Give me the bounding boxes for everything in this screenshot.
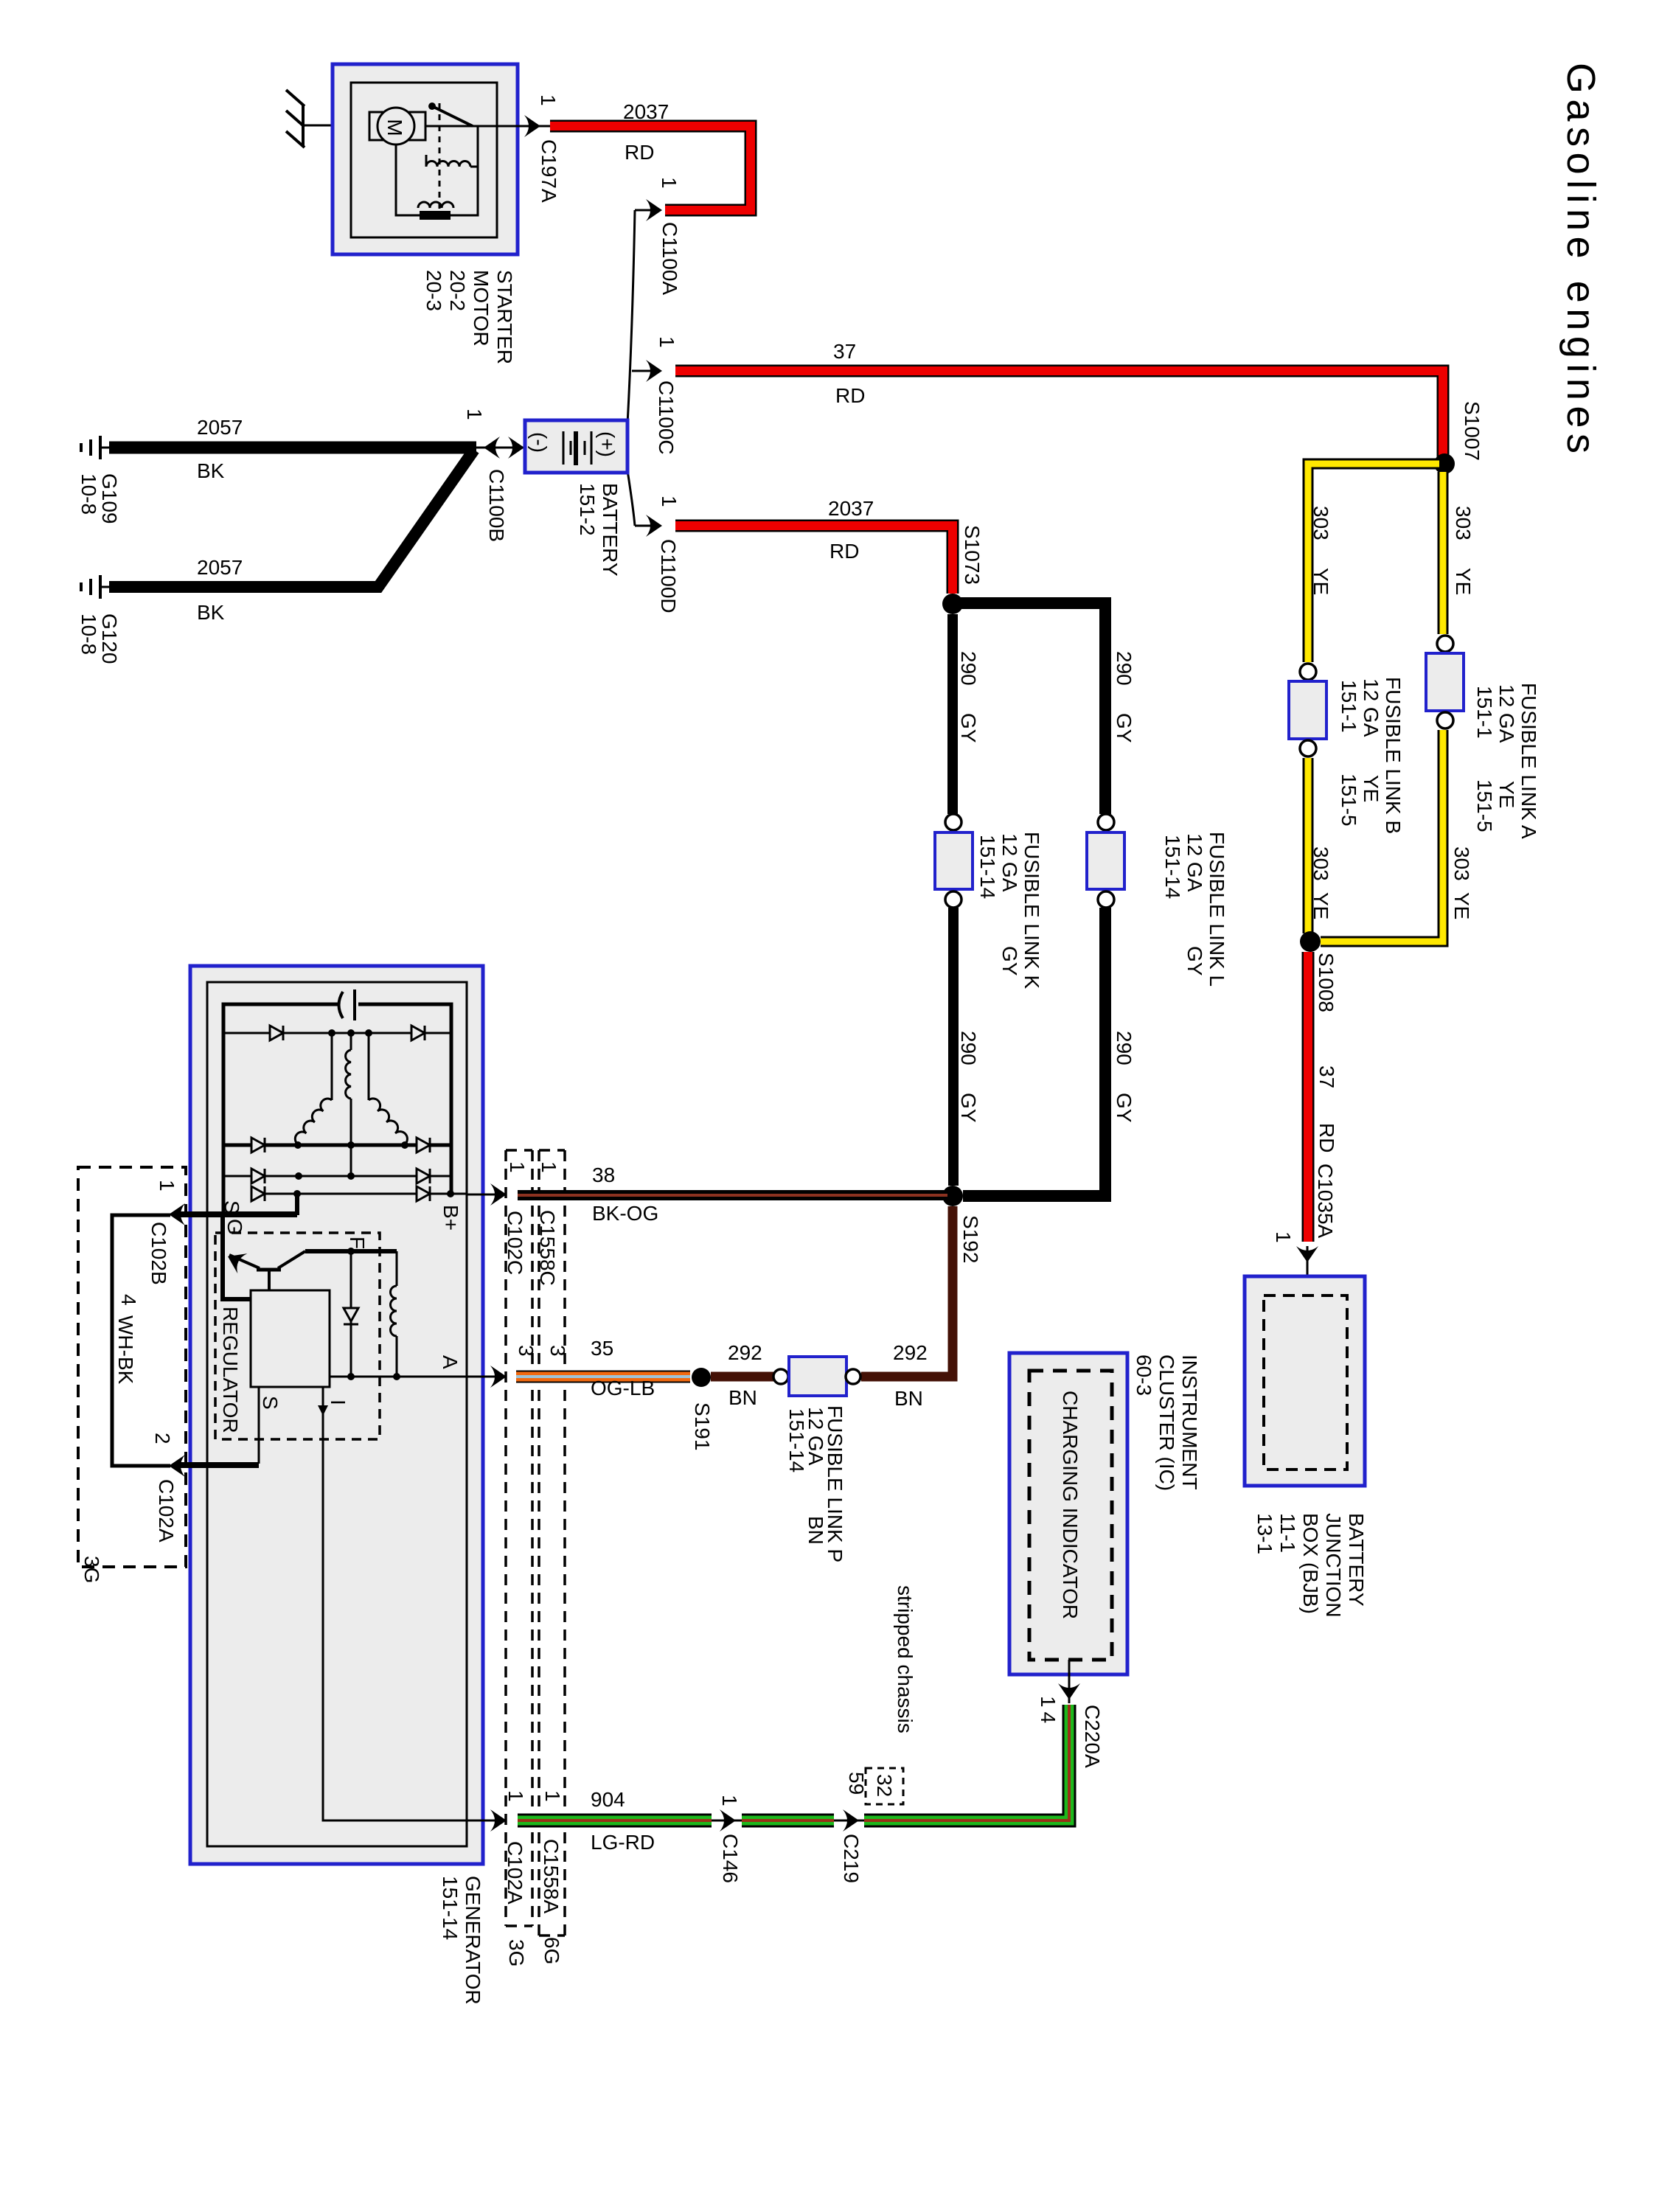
node S1073 bbox=[942, 525, 984, 614]
svg-text:59: 59 bbox=[845, 1772, 868, 1795]
starter motor box bbox=[333, 64, 518, 254]
S G pin wire bbox=[169, 1194, 297, 1235]
svg-text:1: 1 bbox=[463, 408, 486, 420]
instrument cluster label bbox=[1133, 1354, 1201, 1491]
wire battery to C1100D bbox=[627, 470, 635, 526]
svg-text:303: 303 bbox=[1450, 846, 1473, 881]
svg-text:(-): (-) bbox=[528, 432, 551, 453]
svg-text:S1073: S1073 bbox=[961, 525, 984, 585]
connector A arrow bbox=[330, 1366, 507, 1388]
svg-text:4: 4 bbox=[117, 1294, 140, 1306]
stripped chassis label bbox=[894, 1585, 917, 1733]
yellow wire left lower bbox=[1303, 758, 1314, 933]
svg-text:1: 1 bbox=[658, 495, 681, 507]
diode row 3 bbox=[223, 1169, 451, 1183]
connector C197A arrow bbox=[518, 94, 560, 203]
svg-text:S1008: S1008 bbox=[1315, 953, 1338, 1012]
svg-text:292: 292 bbox=[728, 1341, 762, 1364]
svg-text:YE: YE bbox=[1310, 892, 1332, 919]
svg-text:151-14: 151-14 bbox=[976, 835, 999, 899]
battery label bbox=[576, 483, 622, 577]
svg-text:BN: BN bbox=[804, 1516, 827, 1545]
svg-text:RD: RD bbox=[625, 141, 654, 164]
wire 2057 BK upper bbox=[109, 416, 476, 482]
BJB label bbox=[1253, 1513, 1368, 1618]
node S191 bbox=[691, 1368, 714, 1450]
svg-text:2057: 2057 bbox=[197, 416, 243, 439]
svg-text:GY: GY bbox=[1183, 946, 1206, 976]
svg-text:1: 1 bbox=[504, 1790, 527, 1802]
svg-text:2037: 2037 bbox=[828, 497, 874, 520]
wire 2057 BK lower with diagonal bbox=[109, 450, 474, 624]
fusible link B label bbox=[1338, 677, 1405, 834]
fusible link L bbox=[1087, 814, 1124, 908]
fusible link A label bbox=[1473, 683, 1540, 839]
svg-text:C1100A: C1100A bbox=[658, 222, 681, 295]
svg-text:290: 290 bbox=[957, 651, 980, 686]
diode row 1 bbox=[223, 1026, 451, 1040]
diode row 2 bbox=[223, 1138, 451, 1152]
wire 37 RD to BJB bbox=[1308, 952, 1338, 1242]
svg-text:OG-LB: OG-LB bbox=[591, 1377, 655, 1399]
jumper wire 4 WH-BK bbox=[112, 1215, 170, 1466]
stator windings bbox=[295, 1033, 407, 1176]
svg-text:RD: RD bbox=[829, 540, 859, 563]
starter solenoid plunger bbox=[439, 103, 441, 214]
svg-text:20-2: 20-2 bbox=[446, 270, 469, 311]
wire 292 BN from S192 bbox=[861, 1206, 953, 1377]
svg-text:1: 1 bbox=[1272, 1231, 1295, 1243]
ground at starter motor bbox=[286, 90, 305, 147]
svg-text:151-14: 151-14 bbox=[785, 1408, 808, 1472]
svg-text:10-8: 10-8 bbox=[77, 613, 100, 655]
starter solenoid winding 1 bbox=[426, 161, 470, 167]
node 32 dashed box bbox=[866, 1768, 903, 1804]
svg-text:C219: C219 bbox=[840, 1834, 863, 1883]
svg-text:GY: GY bbox=[957, 1093, 980, 1123]
svg-text:Gasoline engines: Gasoline engines bbox=[1559, 63, 1603, 453]
wire 35 OG-LB bbox=[516, 1337, 690, 1399]
svg-text:FUSIBLE LINK B: FUSIBLE LINK B bbox=[1382, 677, 1405, 834]
svg-text:32: 32 bbox=[873, 1774, 896, 1797]
svg-text:REGULATOR: REGULATOR bbox=[219, 1307, 242, 1433]
svg-text:YE: YE bbox=[1452, 568, 1475, 595]
svg-text:stripped chassis: stripped chassis bbox=[894, 1585, 917, 1733]
svg-text:C1558C: C1558C bbox=[536, 1210, 559, 1286]
starter solenoid winding 2 bbox=[418, 202, 453, 208]
svg-text:GY: GY bbox=[1113, 713, 1135, 743]
fusible link P bbox=[773, 1357, 860, 1396]
diode D1 regulator bbox=[344, 1248, 358, 1377]
svg-text:RD: RD bbox=[1315, 1123, 1338, 1152]
generator box bbox=[190, 966, 483, 1864]
connector C102 labels bbox=[80, 1180, 178, 1583]
svg-text:20-3: 20-3 bbox=[422, 270, 445, 311]
transistor emitter arrowhead bbox=[223, 1247, 247, 1274]
labels 292 BN left bbox=[728, 1341, 762, 1409]
wire 904 LG-RD left bbox=[518, 1788, 712, 1854]
svg-text:LG-RD: LG-RD bbox=[591, 1831, 655, 1854]
svg-text:BN: BN bbox=[894, 1387, 923, 1410]
labels 303 YE left upper bbox=[1310, 506, 1332, 595]
svg-text:35: 35 bbox=[591, 1337, 613, 1360]
svg-text:(+): (+) bbox=[596, 431, 619, 457]
svg-text:C102A: C102A bbox=[504, 1841, 526, 1905]
svg-text:GENERATOR: GENERATOR bbox=[462, 1876, 484, 2005]
labels 303 YE right upper bbox=[1452, 506, 1475, 595]
instrument cluster box bbox=[1009, 1353, 1127, 1674]
svg-text:STARTER: STARTER bbox=[493, 270, 516, 364]
svg-text:CHARGING INDICATOR: CHARGING INDICATOR bbox=[1059, 1391, 1082, 1619]
wire 292 BN left bbox=[711, 1372, 774, 1382]
svg-text:G120: G120 bbox=[98, 613, 121, 664]
svg-text:GY: GY bbox=[1113, 1093, 1135, 1123]
svg-text:151-14: 151-14 bbox=[1161, 835, 1184, 899]
fusible link B bbox=[1289, 664, 1326, 757]
svg-text:BK-OG: BK-OG bbox=[592, 1202, 658, 1225]
fusible link L label bbox=[1161, 832, 1228, 987]
svg-text:3G: 3G bbox=[80, 1556, 103, 1583]
svg-text:GY: GY bbox=[957, 713, 980, 743]
connector C1100D arrow bbox=[635, 495, 681, 613]
svg-text:FUSIBLE LINK L: FUSIBLE LINK L bbox=[1206, 832, 1228, 987]
fusible link P label bbox=[785, 1405, 846, 1562]
fusible link K label bbox=[976, 832, 1043, 990]
svg-text:2057: 2057 bbox=[197, 556, 243, 579]
svg-text:RD: RD bbox=[835, 384, 865, 407]
labels 290 GY left upper bbox=[957, 651, 980, 743]
black wire 290 left lower bbox=[948, 908, 959, 1186]
svg-text:12 GA: 12 GA bbox=[1360, 678, 1382, 737]
connector C1100C arrow bbox=[632, 336, 678, 455]
connector C1100B arrows bbox=[463, 408, 525, 542]
connector C1100A arrow bbox=[635, 177, 681, 295]
svg-text:C1035A: C1035A bbox=[1314, 1164, 1337, 1239]
svg-text:S191: S191 bbox=[691, 1402, 714, 1450]
svg-text:C102C: C102C bbox=[504, 1211, 526, 1275]
svg-text:C1100C: C1100C bbox=[655, 380, 678, 455]
wire battery to C1100A bbox=[627, 210, 635, 424]
starter internal wires bbox=[396, 126, 478, 215]
black wire 290 left upper bbox=[947, 614, 958, 814]
fusible link K bbox=[935, 814, 973, 908]
svg-text:S1007: S1007 bbox=[1461, 401, 1484, 461]
svg-text:M: M bbox=[383, 119, 406, 136]
yellow wire right lower loop bbox=[1321, 730, 1443, 942]
svg-text:C146: C146 bbox=[719, 1834, 742, 1883]
svg-text:CLUSTER (IC): CLUSTER (IC) bbox=[1155, 1354, 1178, 1491]
labels 292 BN right bbox=[893, 1341, 928, 1410]
svg-text:38: 38 bbox=[592, 1164, 615, 1186]
svg-text:303: 303 bbox=[1310, 506, 1332, 540]
regulator block bbox=[251, 1290, 330, 1387]
svg-text:A: A bbox=[439, 1355, 462, 1369]
svg-text:12 GA: 12 GA bbox=[1495, 684, 1518, 743]
diode row 4 B+ bbox=[251, 1186, 467, 1201]
svg-text:151-1: 151-1 bbox=[1338, 680, 1360, 733]
labels 290 GY right lower bbox=[1113, 1031, 1135, 1123]
svg-text:2: 2 bbox=[151, 1433, 174, 1444]
svg-text:14: 14 bbox=[1037, 1696, 1060, 1728]
svg-text:F: F bbox=[346, 1237, 369, 1249]
regulator dashed box bbox=[215, 1233, 380, 1439]
svg-text:C1100D: C1100D bbox=[657, 539, 680, 613]
svg-text:C1558A: C1558A bbox=[540, 1839, 563, 1914]
svg-text:2037: 2037 bbox=[623, 100, 669, 123]
svg-text:FUSIBLE LINK A: FUSIBLE LINK A bbox=[1517, 683, 1540, 839]
svg-text:290: 290 bbox=[1113, 651, 1135, 686]
svg-text:37: 37 bbox=[1315, 1065, 1338, 1088]
generator label bbox=[439, 1876, 484, 2005]
svg-text:I: I bbox=[327, 1399, 349, 1405]
svg-text:GY: GY bbox=[998, 946, 1021, 976]
svg-text:3G: 3G bbox=[505, 1939, 528, 1966]
starter contact bar bbox=[420, 211, 451, 220]
svg-text:1: 1 bbox=[538, 1161, 560, 1173]
svg-text:151-2: 151-2 bbox=[576, 483, 599, 536]
svg-text:YE: YE bbox=[1360, 775, 1382, 802]
S pin regulator bbox=[169, 1387, 282, 1477]
svg-text:MOTOR: MOTOR bbox=[470, 270, 493, 347]
pin 3 labels wire 35 bbox=[515, 1345, 569, 1357]
labels 290 GY right upper bbox=[1113, 651, 1135, 743]
node S192 bbox=[942, 1186, 982, 1263]
connector C102C dashed box bbox=[506, 1150, 532, 1926]
svg-text:904: 904 bbox=[591, 1788, 625, 1811]
svg-text:1: 1 bbox=[658, 177, 681, 189]
yellow wire right upper bbox=[1438, 472, 1449, 634]
svg-text:BN: BN bbox=[728, 1386, 757, 1409]
svg-text:C197A: C197A bbox=[538, 139, 560, 203]
wire ground to starter bbox=[303, 125, 352, 127]
pin 1 labels wire 904 bbox=[504, 1790, 564, 1966]
wire 904 LG-RD right bbox=[864, 1705, 1069, 1820]
svg-text:1: 1 bbox=[537, 94, 560, 106]
svg-text:1: 1 bbox=[156, 1180, 178, 1192]
svg-text:YE: YE bbox=[1495, 781, 1518, 808]
connector C1035A arrow bbox=[1272, 1164, 1337, 1298]
svg-text:303: 303 bbox=[1452, 506, 1475, 540]
svg-text:60-3: 60-3 bbox=[1133, 1354, 1155, 1396]
svg-text:INSTRUMENT: INSTRUMENT bbox=[1178, 1354, 1201, 1490]
svg-text:6G: 6G bbox=[540, 1937, 563, 1964]
stator loop bbox=[223, 1004, 451, 1213]
transistor Q bbox=[223, 1214, 305, 1299]
svg-text:303: 303 bbox=[1310, 846, 1332, 881]
svg-text:290: 290 bbox=[1113, 1031, 1135, 1065]
starter motor label bbox=[422, 270, 516, 364]
svg-text:3: 3 bbox=[515, 1345, 538, 1357]
black wire 290 right lower loop bbox=[963, 908, 1105, 1196]
wire 37 RD to S1007 bbox=[675, 340, 1443, 459]
ground G109 bbox=[81, 436, 100, 459]
field coil bbox=[391, 1251, 397, 1377]
svg-text:290: 290 bbox=[957, 1031, 980, 1065]
connector C1558 dashed box bbox=[539, 1150, 565, 1935]
svg-text:BATTERY: BATTERY bbox=[1345, 1513, 1368, 1607]
svg-text:292: 292 bbox=[893, 1341, 928, 1364]
svg-text:37: 37 bbox=[833, 340, 856, 363]
wire 2037 RD upper bbox=[550, 100, 751, 210]
svg-text:G109: G109 bbox=[98, 473, 121, 524]
connector C146 arrow bbox=[712, 1795, 742, 1883]
svg-text:12 GA: 12 GA bbox=[998, 833, 1021, 892]
black wire 290 top loop bbox=[953, 603, 1105, 814]
svg-text:151-14: 151-14 bbox=[439, 1876, 462, 1940]
ground G120 bbox=[81, 575, 100, 599]
node S1007 bbox=[1434, 401, 1484, 474]
node S1008 bbox=[1300, 931, 1338, 1012]
title Gasoline engines bbox=[1559, 63, 1603, 453]
svg-text:13-1: 13-1 bbox=[1253, 1513, 1276, 1554]
svg-text:151-5: 151-5 bbox=[1338, 773, 1360, 827]
svg-text:JUNCTION: JUNCTION bbox=[1322, 1513, 1345, 1618]
svg-text:B+: B+ bbox=[439, 1205, 462, 1231]
pin 1 labels wire 38 bbox=[504, 1161, 560, 1286]
svg-text:BATTERY: BATTERY bbox=[599, 483, 622, 577]
labels 303 YE right lower bbox=[1450, 846, 1473, 919]
svg-text:3: 3 bbox=[546, 1345, 569, 1357]
svg-text:FUSIBLE LINK K: FUSIBLE LINK K bbox=[1020, 832, 1043, 990]
svg-text:BK: BK bbox=[197, 459, 225, 482]
svg-text:C102B: C102B bbox=[147, 1222, 170, 1285]
wire 38 BK-OG bbox=[518, 1164, 947, 1225]
wire 2037 RD lower to S1073 bbox=[675, 497, 953, 594]
battery bbox=[525, 420, 627, 473]
connector C219 arrow bbox=[834, 1772, 868, 1883]
svg-text:1: 1 bbox=[655, 336, 678, 348]
svg-text:BK: BK bbox=[197, 601, 225, 624]
capacitor bbox=[339, 990, 355, 1020]
svg-text:C220A: C220A bbox=[1081, 1705, 1104, 1768]
svg-text:11-1: 11-1 bbox=[1276, 1513, 1299, 1553]
connector C220A arrow bbox=[1037, 1660, 1104, 1768]
svg-text:1: 1 bbox=[718, 1795, 741, 1806]
starter motor M symbol bbox=[369, 108, 425, 145]
B+ label bbox=[439, 1205, 462, 1231]
labels 290 GY left lower bbox=[957, 1031, 980, 1123]
svg-text:C102A: C102A bbox=[155, 1479, 178, 1543]
svg-text:C1100B: C1100B bbox=[485, 469, 508, 542]
A line bbox=[347, 1355, 462, 1380]
charging indicator label bbox=[1059, 1391, 1082, 1619]
svg-text:12 GA: 12 GA bbox=[1183, 833, 1206, 892]
svg-text:WH-BK: WH-BK bbox=[114, 1315, 137, 1385]
starter switch lever bbox=[425, 102, 518, 126]
labels 303 YE left lower bbox=[1310, 846, 1332, 919]
wire 904 LG-RD middle bbox=[742, 1814, 834, 1828]
svg-text:BOX (BJB): BOX (BJB) bbox=[1299, 1513, 1322, 1614]
F line bbox=[305, 1237, 397, 1251]
I pin wire bbox=[318, 1387, 507, 1832]
svg-text:S: S bbox=[220, 1200, 243, 1214]
svg-text:151-5: 151-5 bbox=[1473, 779, 1496, 832]
svg-text:YE: YE bbox=[1310, 568, 1332, 595]
battery junction box BJB bbox=[1245, 1276, 1365, 1486]
svg-text:S192: S192 bbox=[959, 1215, 982, 1263]
svg-text:151-1: 151-1 bbox=[1473, 686, 1496, 739]
fusible link A bbox=[1426, 636, 1464, 728]
svg-text:YE: YE bbox=[1450, 892, 1473, 919]
yellow wire 303 top loop bbox=[1308, 464, 1439, 662]
connector B+ arrow bbox=[467, 1183, 507, 1206]
svg-text:10-8: 10-8 bbox=[77, 473, 100, 515]
svg-text:S: S bbox=[259, 1396, 282, 1410]
svg-text:1: 1 bbox=[506, 1161, 529, 1173]
connector C102 dashed box left bbox=[78, 1167, 186, 1567]
svg-text:1: 1 bbox=[541, 1790, 564, 1802]
